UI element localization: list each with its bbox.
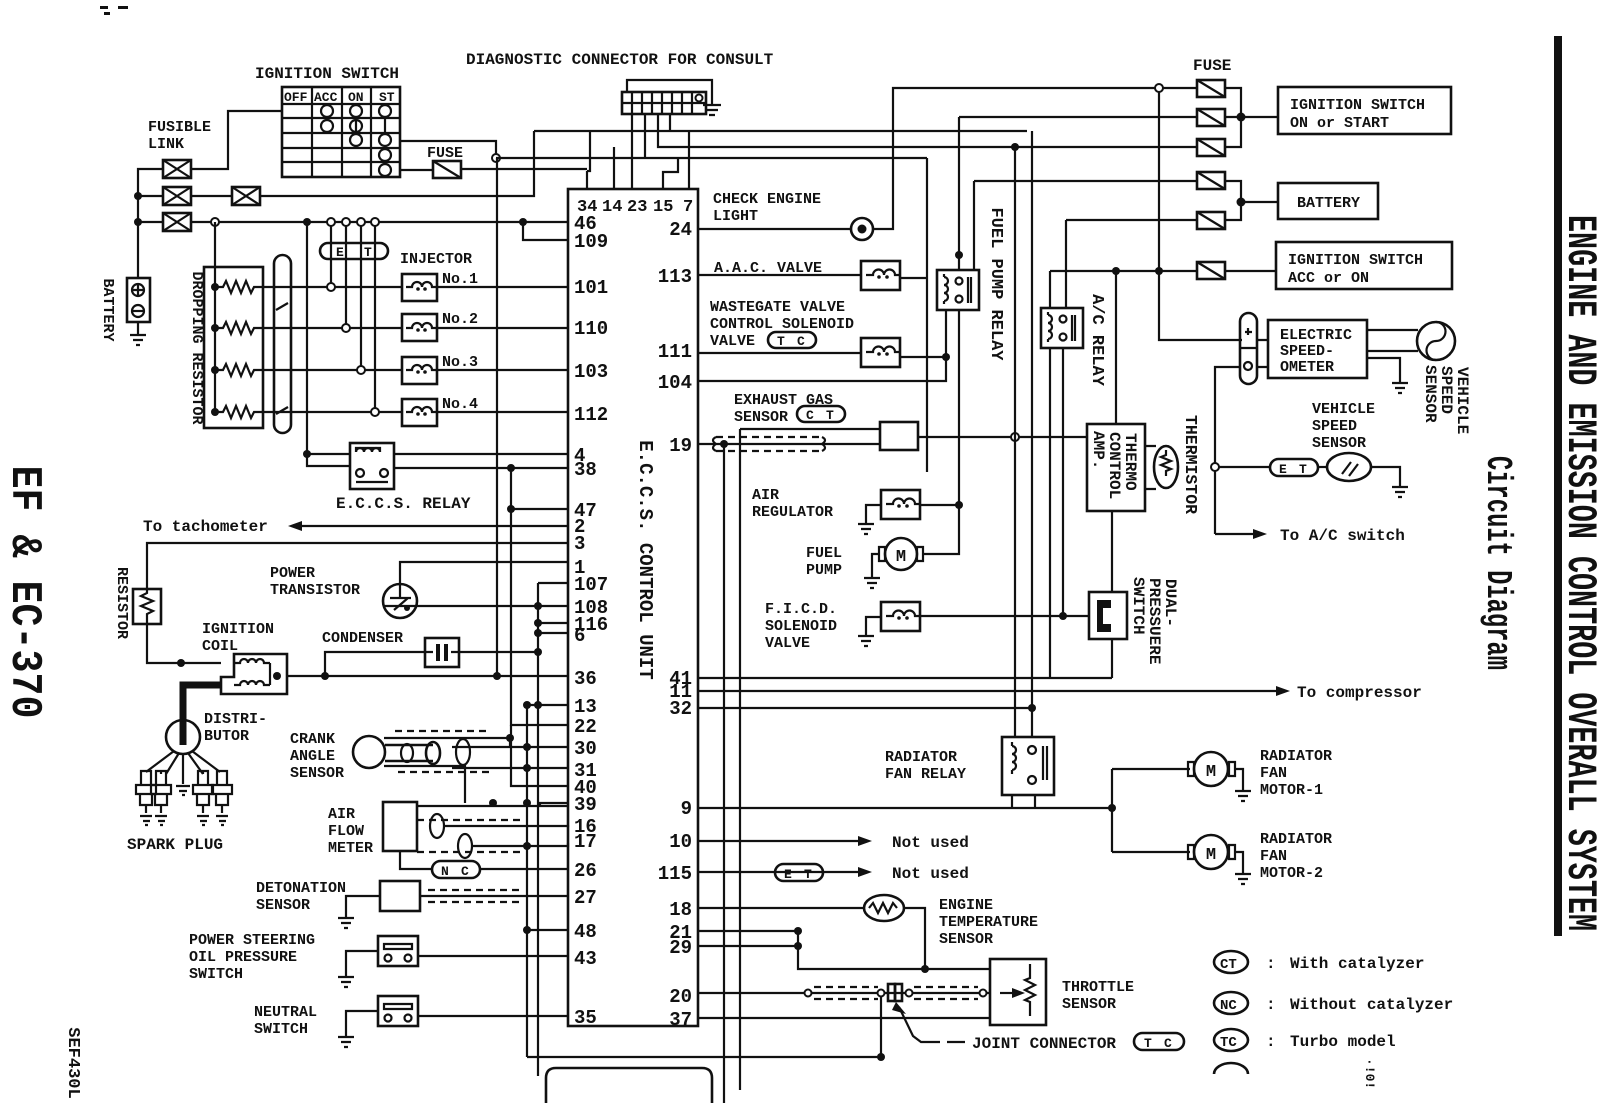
wire NC to pin26 xyxy=(480,868,568,870)
svg-text:103: 103 xyxy=(574,361,608,383)
battery B1 xyxy=(127,278,150,322)
vehicle speed sensor generator xyxy=(1417,322,1455,360)
svg-text:ON or START: ON or START xyxy=(1290,115,1389,132)
svg-text:39: 39 xyxy=(574,794,597,816)
svg-text:No.1: No.1 xyxy=(442,271,478,288)
ground speedometer xyxy=(1367,358,1408,393)
svg-text:FUSE: FUSE xyxy=(427,145,463,162)
wire AFM to pin39 xyxy=(417,803,568,806)
right sidebar bar xyxy=(1554,36,1562,936)
wire condenser branch xyxy=(325,652,425,676)
node injector feed 2 xyxy=(342,324,350,332)
wire connector pin risers xyxy=(632,114,1197,189)
svg-text:C: C xyxy=(461,864,469,879)
junction x527 pin13 xyxy=(523,701,531,709)
wire pin107 hook xyxy=(538,582,568,584)
connector T C oval wastegate xyxy=(768,332,816,349)
junction x527 afm xyxy=(523,842,531,850)
wire fuse F0 output riser xyxy=(461,131,590,171)
wastegate solenoid valve xyxy=(861,338,901,367)
spark plug 4 xyxy=(212,771,232,825)
wire dual pressure feed dot xyxy=(1062,615,1064,617)
joint connector xyxy=(888,984,902,1001)
resistor R1 xyxy=(133,589,161,624)
wire to AC switch xyxy=(1215,533,1253,535)
svg-text:ACC: ACC xyxy=(314,90,338,105)
ground below battery xyxy=(130,322,146,345)
svg-text:101: 101 xyxy=(574,277,608,299)
wire shield drop x740 xyxy=(739,429,741,1090)
A/C relay K3 xyxy=(1041,308,1083,348)
svg-text:C: C xyxy=(806,408,814,423)
junction x1015 top xyxy=(1011,143,1019,151)
wire pin3 to resistor xyxy=(147,543,568,589)
connector E T oval 115 xyxy=(775,864,823,882)
node throttle in xyxy=(980,990,987,997)
wire AFM pair dashed xyxy=(417,820,520,852)
junction condenser tap xyxy=(321,672,329,680)
svg-text:A/C RELAY: A/C RELAY xyxy=(1087,294,1106,387)
svg-text:LIGHT: LIGHT xyxy=(713,208,758,225)
wire pin19 shield dashes xyxy=(716,437,822,451)
junction crank top xyxy=(506,734,514,742)
wire pin116 stub xyxy=(538,622,568,624)
ignition switch on/start box xyxy=(1278,87,1451,134)
wire temp sensor loop xyxy=(798,908,925,969)
svg-text:PUMP: PUMP xyxy=(806,562,842,579)
junction rail r3 xyxy=(211,366,219,374)
wire fuse4 out xyxy=(1225,181,1241,202)
svg-text:FUEL: FUEL xyxy=(806,545,842,562)
wire detonation dashes xyxy=(428,890,520,902)
wire lamp to fuse feed xyxy=(873,88,1156,229)
svg-text:38: 38 xyxy=(574,459,597,481)
svg-text:32: 32 xyxy=(669,698,692,720)
wire ignition switch to fuse node xyxy=(400,141,496,158)
svg-text:To tachometer: To tachometer xyxy=(143,518,268,536)
ground air regulator xyxy=(858,505,881,534)
svg-text:REGULATOR: REGULATOR xyxy=(752,504,833,521)
junction pin38 tap xyxy=(507,464,515,472)
arrow not used 1 xyxy=(858,836,872,846)
svg-text:CONTROL SOLENOID: CONTROL SOLENOID xyxy=(710,316,854,333)
wire fan branch riser xyxy=(1111,769,1113,852)
svg-text:CRANK: CRANK xyxy=(290,731,335,748)
node open circle fuse feed xyxy=(492,154,500,162)
wire relay to pin38 xyxy=(394,467,568,469)
svg-text:TEMPERATURE: TEMPERATURE xyxy=(939,914,1038,931)
wire circle to fuse1 xyxy=(1163,87,1197,89)
wire pin115 not used xyxy=(698,871,858,873)
arrow throttle wiper xyxy=(1000,992,1014,994)
legend TC xyxy=(1214,1029,1396,1051)
wire AC relay bottom right pin xyxy=(1062,348,1064,617)
svg-text:WASTEGATE VALVE: WASTEGATE VALVE xyxy=(710,299,845,316)
legend partial oval xyxy=(1214,1063,1248,1074)
wire wastegate to relay riser xyxy=(900,356,946,358)
svg-text:35: 35 xyxy=(574,1007,597,1029)
wire crank to pin30 xyxy=(452,746,568,748)
fuel pump relay K2 xyxy=(937,270,979,310)
fusible link FL1 xyxy=(163,160,191,178)
junction bus x523 xyxy=(519,218,527,226)
svg-text:E: E xyxy=(1279,462,1287,477)
svg-text:RESISTOR: RESISTOR xyxy=(113,567,130,639)
svg-text:RADIATOR: RADIATOR xyxy=(1260,831,1332,848)
dual pressure switch label xyxy=(1129,577,1179,664)
node joint left xyxy=(878,990,885,997)
node joint right xyxy=(906,990,913,997)
connector capsule speedometer xyxy=(1240,313,1257,384)
wire condenser to bus x538 xyxy=(459,651,538,653)
wire crank to pin31 xyxy=(452,767,568,769)
svg-text:43: 43 xyxy=(574,948,597,970)
svg-text:ENGINE: ENGINE xyxy=(939,897,993,914)
svg-text:Not used: Not used xyxy=(892,865,969,883)
svg-text:FUSIBLE: FUSIBLE xyxy=(148,119,211,136)
node shield start xyxy=(805,990,812,997)
junction relay feed xyxy=(303,450,311,458)
wire bus x527 xyxy=(526,705,528,1057)
power transistor Q1 xyxy=(383,583,417,618)
ground diagnostic connector xyxy=(703,103,721,115)
E.C.C.S. control unit U1 xyxy=(568,189,698,1026)
svg-text:ENGINE AND EMISSION CONTROL OV: ENGINE AND EMISSION CONTROL OVERALL SYST… xyxy=(1556,215,1600,931)
svg-text:IGNITION: IGNITION xyxy=(202,621,274,638)
svg-text:DROPPING RESISTOR: DROPPING RESISTOR xyxy=(188,271,205,424)
svg-text:ON: ON xyxy=(348,90,364,105)
wire injector3 to pin103 xyxy=(437,369,568,371)
svg-text:104: 104 xyxy=(658,372,692,394)
svg-text:F.I.C.D.: F.I.C.D. xyxy=(765,601,837,618)
svg-text:107: 107 xyxy=(574,574,608,596)
svg-text:37: 37 xyxy=(669,1009,692,1031)
svg-text:6: 6 xyxy=(574,625,585,647)
wire neutral switch to pin35 xyxy=(418,1015,568,1017)
svg-text:3: 3 xyxy=(574,533,585,555)
svg-text:·!0!: ·!0! xyxy=(1362,1058,1377,1089)
wire pin1 to transistor collector xyxy=(400,562,568,583)
wire x1032 drop xyxy=(1031,131,1033,737)
svg-text:VEHICLE: VEHICLE xyxy=(1312,401,1375,418)
svg-text:No.2: No.2 xyxy=(442,311,478,328)
svg-text:IGNITION SWITCH: IGNITION SWITCH xyxy=(1288,252,1423,269)
svg-text:POWER: POWER xyxy=(270,565,315,582)
electric speedometer label/box xyxy=(1268,320,1367,378)
svg-text:M: M xyxy=(1206,846,1216,865)
E.C.C.S. relay K1 xyxy=(350,443,394,489)
wire bus y158 xyxy=(496,157,927,159)
svg-text:Turbo model: Turbo model xyxy=(1290,1033,1396,1051)
junction coil feed xyxy=(177,659,185,667)
junction fan branch xyxy=(1108,804,1116,812)
wire injector4 to pin112 xyxy=(437,411,568,413)
check engine lamp xyxy=(851,218,873,240)
junction FICD line xyxy=(1059,612,1067,620)
svg-text:SOLENOID: SOLENOID xyxy=(765,618,837,635)
crank angle sensor xyxy=(353,736,440,768)
arrow to tachometer xyxy=(288,521,302,531)
wire pin113 to AAC xyxy=(698,274,861,276)
svg-text:C: C xyxy=(797,334,805,349)
fuse F3 xyxy=(1197,139,1225,156)
svg-text:EF & EC-370: EF & EC-370 xyxy=(0,466,49,719)
ground FICD xyxy=(858,617,881,646)
svg-text:OIL PRESSURE: OIL PRESSURE xyxy=(189,949,297,966)
resistor RD4 xyxy=(215,406,263,418)
ECU left pin labels xyxy=(574,213,608,1029)
ground fan motor1 xyxy=(1235,769,1251,801)
wire pin21 stub xyxy=(698,930,798,932)
svg-text:ELECTRIC: ELECTRIC xyxy=(1280,327,1352,344)
svg-text:SPEED-: SPEED- xyxy=(1280,343,1334,360)
svg-text:14: 14 xyxy=(602,198,622,217)
svg-text:M: M xyxy=(1206,763,1216,782)
wire capsule mid ticks xyxy=(276,303,288,414)
ground distributor center xyxy=(176,780,190,795)
wire oval to reed xyxy=(1318,466,1327,468)
svg-text:TRANSISTOR: TRANSISTOR xyxy=(270,582,360,599)
svg-text:FLOW: FLOW xyxy=(328,823,364,840)
junction pin21 xyxy=(794,927,802,935)
arrow joint leader xyxy=(892,1002,906,1014)
arrow to AC switch xyxy=(1253,529,1267,539)
junction battery rail row2 xyxy=(134,192,142,200)
svg-text:SPARK PLUG: SPARK PLUG xyxy=(127,836,223,854)
air flow meter xyxy=(383,802,417,851)
wire bottom bus xyxy=(527,1056,881,1058)
ignition switch SW1 table xyxy=(282,87,400,177)
connector T C oval joint xyxy=(1134,1033,1184,1051)
svg-text:30: 30 xyxy=(574,738,597,760)
wire pin6 stub xyxy=(538,632,568,634)
fuse F4 xyxy=(1197,172,1225,189)
connector capsule dropping resistor xyxy=(274,255,291,433)
air regulator xyxy=(881,490,921,519)
svg-text:10: 10 xyxy=(669,831,692,853)
junction thermo feed xyxy=(1112,267,1120,275)
connector E T oval injectors xyxy=(320,243,388,260)
wire pin46 to pin109 branch xyxy=(523,222,568,240)
node bus tap 2 xyxy=(342,218,350,226)
wire to fan motor2 xyxy=(1112,851,1190,853)
node connector open circle on bus xyxy=(211,218,219,226)
node open circle right fuse rail xyxy=(1155,84,1163,92)
junction ign feed xyxy=(1237,113,1246,122)
radiator fan motor-1 xyxy=(1188,752,1235,786)
svg-text:111: 111 xyxy=(658,341,692,363)
wire relay contact drop xyxy=(958,310,960,505)
wire air regulator to relay drop xyxy=(920,504,959,506)
svg-text:SENSOR: SENSOR xyxy=(256,897,310,914)
junction x1159 acc row xyxy=(1155,267,1163,275)
svg-text:SENSOR: SENSOR xyxy=(734,409,788,426)
legend CT xyxy=(1214,951,1424,973)
svg-text:113: 113 xyxy=(658,266,692,288)
wire pin13 stub xyxy=(527,704,568,706)
wire to fan motor1 xyxy=(1112,768,1190,770)
svg-text:IGNITION SWITCH: IGNITION SWITCH xyxy=(1290,97,1425,114)
svg-text:15: 15 xyxy=(653,198,673,217)
throttle sensor xyxy=(990,959,1046,1025)
svg-text:27: 27 xyxy=(574,887,597,909)
svg-text:SWITCH: SWITCH xyxy=(1129,577,1147,635)
wire relay drop x307 xyxy=(307,222,350,466)
svg-text:T: T xyxy=(1144,1036,1152,1051)
svg-text:ANGLE: ANGLE xyxy=(290,748,335,765)
ignition switch acc box xyxy=(1276,242,1452,289)
svg-text:SENSOR: SENSOR xyxy=(939,931,993,948)
junction air reg fuel pump xyxy=(955,501,963,509)
svg-text:Not used: Not used xyxy=(892,834,969,852)
wire vss branch xyxy=(1219,466,1270,468)
junction battery rail row3 xyxy=(134,218,142,226)
wire to tachometer pin2 xyxy=(292,525,568,527)
wire detonation to pin27 shield xyxy=(420,895,568,897)
svg-text:BATTERY: BATTERY xyxy=(99,278,116,341)
junction rail r1 xyxy=(211,283,219,291)
wire fuse3 out xyxy=(1225,117,1241,147)
wire FICD to dual pressure switch xyxy=(920,615,1089,617)
fuse F6 xyxy=(1197,262,1225,279)
wire relay top stub xyxy=(307,453,350,455)
distributor xyxy=(146,720,220,780)
radiator fan relay K4 xyxy=(1002,737,1054,795)
battery box xyxy=(1278,183,1378,219)
wire FL2b to riser x534 xyxy=(260,131,534,196)
svg-text:OFF: OFF xyxy=(284,90,308,105)
svg-text:17: 17 xyxy=(574,831,597,853)
svg-text:To A/C switch: To A/C switch xyxy=(1280,527,1405,545)
wire pin32 line xyxy=(698,707,1032,709)
wire bus drops to injectors xyxy=(331,226,375,408)
wire fuel pump to drop xyxy=(923,505,959,554)
svg-text:With catalyzer: With catalyzer xyxy=(1290,955,1424,973)
fuel pump motor xyxy=(879,538,923,570)
ground vss xyxy=(1392,487,1408,497)
wire thermo amp bottom to dual pressure xyxy=(1111,511,1113,592)
fuse F1 xyxy=(1197,80,1225,97)
wire resistor rows to injectors xyxy=(263,287,402,412)
connector E T oval vss xyxy=(1270,459,1318,477)
wire pin19 to sensor xyxy=(698,443,880,445)
wire PS switch to pin43 xyxy=(418,955,568,957)
svg-text:29: 29 xyxy=(669,937,692,959)
wire joint to throttle dashes xyxy=(914,987,978,999)
spark plug 2 xyxy=(151,771,171,825)
svg-text:LINK: LINK xyxy=(148,136,184,153)
svg-text:115: 115 xyxy=(658,863,692,885)
svg-text:MOTOR-2: MOTOR-2 xyxy=(1260,865,1323,882)
svg-text:E: E xyxy=(784,867,792,882)
svg-text:RADIATOR: RADIATOR xyxy=(1260,748,1332,765)
arrow not used 2 xyxy=(858,867,872,877)
connector N C oval xyxy=(432,861,480,879)
ground neutral switch xyxy=(338,1011,378,1047)
junction x538 pin13 xyxy=(534,701,542,709)
A.A.C. valve xyxy=(861,261,901,290)
wire distributor HT lead xyxy=(183,685,221,745)
svg-text:T: T xyxy=(1299,462,1307,477)
wire crank sensor pair dashed xyxy=(395,731,490,772)
svg-text:SWITCH: SWITCH xyxy=(254,1021,308,1038)
connector capsule AFM pair xyxy=(430,814,472,858)
svg-text:FUEL PUMP RELAY: FUEL PUMP RELAY xyxy=(986,207,1005,361)
svg-text:26: 26 xyxy=(574,860,597,882)
wire pin111 to wastegate xyxy=(698,352,861,354)
wire pin 7 riser xyxy=(688,131,690,189)
svg-text:CONDENSER: CONDENSER xyxy=(322,630,403,647)
vehicle speed sensor vertical label xyxy=(1421,365,1471,434)
wire resistor feed rail xyxy=(214,222,216,412)
svg-text:36: 36 xyxy=(574,668,597,690)
wire dual pressure bottom to 41 line xyxy=(1111,639,1113,678)
wire fuse6 out xyxy=(1225,270,1276,272)
node bus tap 4 xyxy=(371,218,379,226)
wire relay feed riser xyxy=(958,117,960,270)
junction x538 pin108 xyxy=(534,602,542,610)
wire reed to ground xyxy=(1371,467,1400,487)
wire relay to pin4 xyxy=(394,453,568,455)
svg-text:23: 23 xyxy=(627,198,647,217)
node open circle sensor line xyxy=(1011,433,1019,441)
svg-text:DETONATION: DETONATION xyxy=(256,880,346,897)
svg-text:9: 9 xyxy=(681,798,692,820)
vehicle speed sensor reed xyxy=(1327,453,1371,481)
junction x538 pin6 xyxy=(534,629,542,637)
junction pin19 drop xyxy=(720,440,728,448)
ignition switch contacts xyxy=(321,105,391,176)
svg-text:112: 112 xyxy=(574,404,608,426)
svg-text:110: 110 xyxy=(574,318,608,340)
node vss rail tap xyxy=(1211,463,1219,471)
svg-text:BUTOR: BUTOR xyxy=(204,728,249,745)
svg-text:DIAGNOSTIC CONNECTOR FOR CONSU: DIAGNOSTIC CONNECTOR FOR CONSULT xyxy=(466,51,774,69)
ground fan motor2 xyxy=(1235,852,1251,884)
junction x1032 pin32 xyxy=(1028,704,1036,712)
svg-text:SWITCH: SWITCH xyxy=(189,966,243,983)
wire throttle top feed xyxy=(925,968,990,970)
svg-text:SENSOR: SENSOR xyxy=(1421,365,1439,423)
wire pin10 not used xyxy=(698,840,858,842)
svg-text:AIR: AIR xyxy=(752,487,779,504)
junction rail r4 xyxy=(211,408,219,416)
wire pin20 to throttle xyxy=(698,992,990,994)
svg-text:RADIATOR: RADIATOR xyxy=(885,749,957,766)
fuse F2 xyxy=(1197,109,1225,126)
svg-text:AIR: AIR xyxy=(328,806,355,823)
wire joint shield drop xyxy=(880,997,882,1057)
svg-text:SPEED: SPEED xyxy=(1312,418,1357,435)
junction rail r2 xyxy=(211,324,219,332)
fuse F0 xyxy=(433,161,461,178)
svg-text:FAN RELAY: FAN RELAY xyxy=(885,766,966,783)
engine block rounded box xyxy=(546,1068,712,1103)
junction x527 pin39 xyxy=(523,799,531,807)
wire fuse2 row xyxy=(959,116,1197,118)
ECU top pin labels xyxy=(577,198,693,217)
junction x538 pin116 xyxy=(534,619,542,627)
wire pin 34 feed xyxy=(586,171,588,189)
wire speedometer to generator xyxy=(1367,330,1418,351)
junction bus x307 xyxy=(303,218,311,226)
svg-text:T: T xyxy=(364,245,372,260)
svg-text:Circuit Diagram: Circuit Diagram xyxy=(1477,456,1518,670)
svg-text:SENSOR: SENSOR xyxy=(290,765,344,782)
fusible link FL2b xyxy=(232,187,260,205)
svg-text:24: 24 xyxy=(669,219,692,241)
svg-text:DISTRI-: DISTRI- xyxy=(204,711,267,728)
